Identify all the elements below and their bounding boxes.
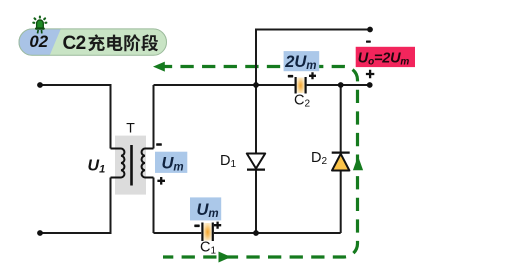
terminal: output plus [367,82,373,88]
wire: secondary top rail left of C2 [154,84,295,86]
transformer secondary winding [142,149,154,178]
wire: D1 branch upper [255,85,257,154]
transformer primary winding [111,149,125,178]
transformer T core plate [115,136,146,195]
value label 2Um on C2 [284,51,320,72]
terminal: input bottom [37,230,43,236]
wire: D2 branch upper [340,85,342,153]
terminal: input top [37,82,43,88]
wire: secondary top rail right of C2 [307,84,370,86]
capacitor C2 [296,77,306,94]
capacitor C1 [202,223,212,242]
polarity minus of C2 [288,75,293,78]
badge title glyph 段 [141,34,158,51]
polarity minus at output (below top terminal) [366,41,371,43]
badge title glyph 电 [107,35,122,51]
arrowhead left (top of loop) [153,62,165,72]
green dashed current path loop [162,67,358,258]
wire: primary loop bottom [40,178,111,234]
junction node A (top rail / D1 / stub) [253,82,259,88]
svg-text:U1: U1 [88,158,106,176]
svg-text:C1: C1 [200,240,216,257]
wire: D2 branch lower [340,171,342,234]
wire: D1 branch lower [255,170,257,234]
svg-text:02: 02 [29,32,48,51]
wire: secondary left vertical bottom [153,178,155,234]
svg-text:D1: D1 [220,153,236,170]
badge pill background [19,28,168,55]
value label Um on transformer secondary [155,152,187,174]
badge title glyph 充 [88,34,105,51]
svg-text:C2: C2 [63,33,86,54]
polarity minus of secondary [156,143,162,146]
polarity minus of C1 [194,225,199,228]
wire: bottom rail left of C1 [154,232,202,234]
value label Um on C1 [190,197,221,220]
svg-text:T: T [126,120,135,136]
wire: primary loop top [40,85,111,149]
polarity plus of secondary [157,177,165,185]
transformer core bar [130,145,133,186]
diode D2 [332,153,350,171]
polarity plus of C2 [309,72,316,79]
arrowhead right (bottom of loop) [219,252,232,263]
diode D1 [247,154,265,170]
wire: secondary left vertical top [153,85,155,149]
arrowhead up (right side of loop, through D2) [353,156,363,170]
badge title glyph 阶 [124,34,140,51]
LED icon [33,17,46,34]
svg-text:C2: C2 [294,93,310,110]
wire: bottom rail right of C1 [214,232,341,234]
svg-text:D2: D2 [311,150,327,167]
polarity plus at output [366,70,374,78]
polarity plus of C1 [214,222,221,229]
junction node B (top rail / D2) [338,82,344,88]
wire: stub from node A up to output minus terminal [256,30,370,86]
junction node C (bottom rail / D1) [253,230,259,236]
terminal: output minus (top right) [367,27,373,33]
output voltage label Uo=2Um [356,47,415,68]
